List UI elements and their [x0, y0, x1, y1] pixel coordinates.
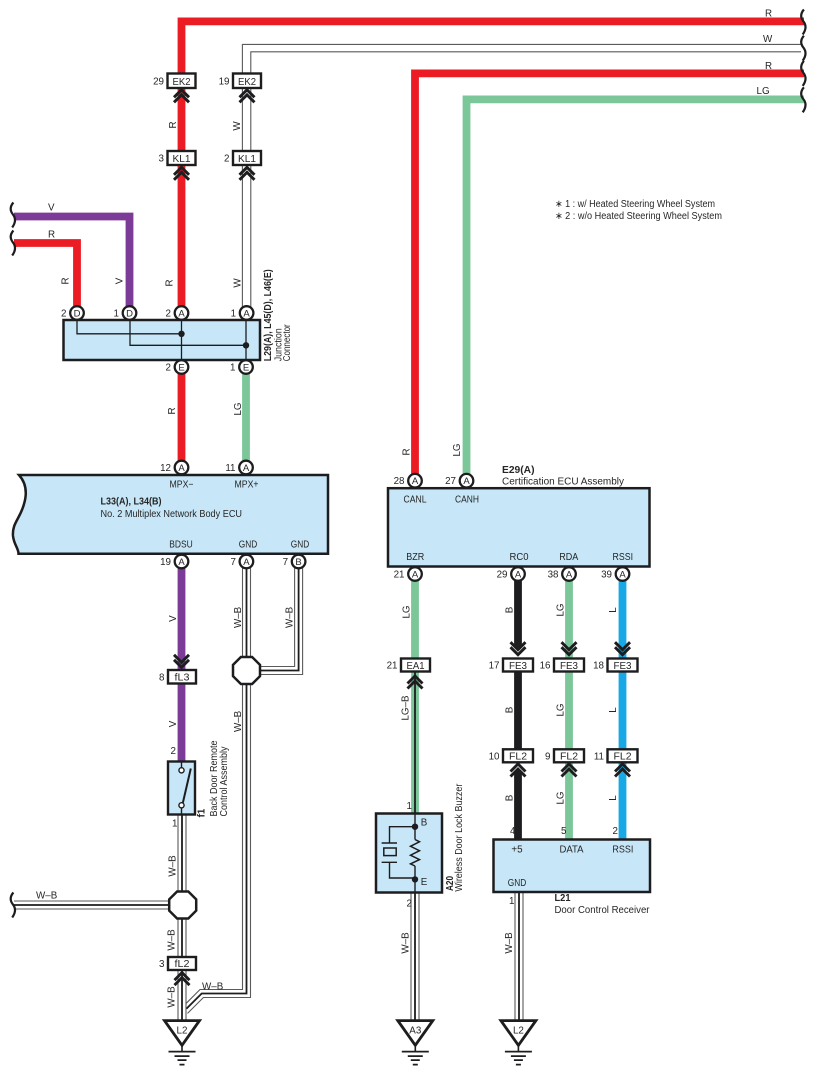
wire W-B octagon down, left, merging above ground L2	[186, 681, 250, 1013]
connector EA1 21	[387, 659, 430, 672]
pin 39A	[601, 567, 629, 581]
svg-text:fL3: fL3	[175, 672, 190, 684]
connector FE3 18	[593, 659, 637, 672]
wire B FE3 to FL2	[514, 658, 522, 762]
svg-text:R: R	[765, 8, 772, 19]
svg-text:GND: GND	[508, 878, 527, 889]
svg-text:CANH: CANH	[455, 494, 479, 505]
svg-text:A: A	[566, 569, 573, 580]
pin 7B	[283, 555, 306, 569]
pin 1D	[114, 306, 137, 320]
svg-text:W–B: W–B	[166, 929, 177, 951]
wire LG junction E1 to L33 pin 11	[242, 367, 250, 467]
svg-text:L: L	[608, 795, 619, 801]
svg-text:MPX−: MPX−	[170, 480, 194, 491]
svg-text:W–B: W–B	[166, 986, 177, 1008]
wire B FL2 chevron to L21 pin 4	[514, 769, 522, 845]
svg-text:10: 10	[489, 751, 500, 762]
svg-text:9: 9	[545, 751, 550, 762]
break squiggle LG	[801, 87, 805, 112]
svg-text:A: A	[178, 308, 185, 319]
svg-text:FE3: FE3	[614, 660, 632, 672]
pin 2A	[166, 306, 189, 320]
svg-text:Connector: Connector	[282, 324, 293, 362]
wire R top horizontal to EK2 29 and down to junction pin 2A	[182, 21, 805, 313]
svg-text:D: D	[126, 308, 133, 319]
wire V from left to junction pin 1D	[14, 217, 130, 314]
svg-text:FE3: FE3	[509, 660, 527, 672]
svg-text:V: V	[168, 720, 179, 727]
pin 1E	[230, 360, 253, 374]
svg-text:39: 39	[601, 569, 612, 580]
svg-text:V: V	[114, 277, 125, 284]
svg-text:W–B: W–B	[284, 606, 295, 628]
svg-text:BZR: BZR	[406, 552, 424, 563]
svg-text:EA1: EA1	[407, 660, 425, 672]
buzzer box A20 Wireless Door Lock Buzzer	[376, 814, 442, 893]
svg-text:18: 18	[593, 661, 604, 672]
svg-text:KL1: KL1	[173, 153, 191, 165]
svg-text:FL2: FL2	[614, 751, 632, 763]
svg-text:W–B: W–B	[504, 932, 515, 954]
svg-text:A: A	[178, 463, 185, 474]
svg-text:W–B: W–B	[233, 606, 244, 628]
svg-text:fL2: fL2	[175, 958, 190, 970]
wire W-B horizontal from left to octagon joint	[14, 901, 176, 909]
pin 27A	[445, 474, 473, 488]
wire B RC0 to FE3 chevron	[514, 574, 522, 651]
svg-text:B: B	[295, 557, 301, 568]
svg-text:B: B	[421, 817, 428, 828]
svg-text:R: R	[168, 121, 179, 128]
svg-text:W–B: W–B	[36, 891, 58, 902]
svg-text:LG: LG	[757, 86, 770, 97]
octagon joint right	[233, 657, 260, 684]
switch contacts	[181, 762, 183, 815]
pin 28A	[394, 474, 422, 488]
pin 19A	[160, 555, 188, 569]
ECU box L33 No.2 Multiplex Network Body ECU	[13, 475, 328, 554]
svg-text:1: 1	[231, 308, 236, 319]
svg-text:28: 28	[394, 476, 405, 487]
connector FL2 9	[545, 749, 584, 762]
svg-text:L: L	[608, 607, 619, 613]
connector EK2 29	[153, 74, 195, 89]
wire LG horizontal to CANH pin 27	[467, 99, 805, 480]
svg-text:R: R	[48, 229, 55, 240]
svg-text:BDSU: BDSU	[169, 540, 193, 551]
pin 2E	[166, 360, 189, 374]
svg-text:A: A	[243, 463, 250, 474]
svg-text:W: W	[232, 121, 243, 131]
svg-text:A3: A3	[409, 1026, 422, 1037]
wire LG BZR to EA1	[411, 574, 419, 665]
chevron down above FE3 18	[615, 642, 630, 655]
svg-text:CANL: CANL	[404, 494, 427, 505]
wire W-B 7A to octagon joint	[243, 562, 251, 661]
svg-text:B: B	[504, 606, 515, 613]
wire W top horizontal to EK2 19 and down to junction pin 1A	[242, 44, 801, 313]
svg-text:RDA: RDA	[559, 552, 578, 563]
junction node dot	[178, 331, 184, 337]
svg-text:2: 2	[613, 826, 618, 837]
svg-text:A: A	[243, 557, 250, 568]
svg-text:1: 1	[114, 308, 119, 319]
ECU box E29 Certification ECU Assembly	[388, 488, 650, 566]
svg-text:EK2: EK2	[238, 76, 256, 88]
svg-text:A: A	[515, 569, 522, 580]
svg-text:19: 19	[160, 557, 171, 568]
pin 38A	[548, 567, 576, 581]
svg-text:16: 16	[540, 661, 551, 672]
wire W-B f1 down to ground L2 left	[178, 815, 186, 1021]
svg-text:4: 4	[510, 826, 516, 837]
wire V 19A to f1 switch	[178, 562, 186, 764]
svg-text:21: 21	[387, 661, 398, 672]
connector FL2 10	[489, 749, 533, 762]
svg-text:f1: f1	[196, 808, 207, 817]
svg-text:L33(A), L34(B): L33(A), L34(B)	[101, 497, 162, 508]
svg-text:L2: L2	[513, 1026, 524, 1037]
svg-text:Door Control Receiver: Door Control Receiver	[555, 905, 651, 916]
svg-text:27: 27	[445, 476, 456, 487]
wire W-B L21 to ground L2	[515, 892, 523, 1021]
svg-text:R: R	[164, 279, 175, 286]
svg-text:W: W	[232, 278, 243, 288]
resistor zigzag	[411, 840, 420, 867]
pin 1A	[231, 306, 254, 320]
connector FE3 17	[489, 659, 533, 672]
connector fL3 8	[159, 670, 196, 684]
svg-text:Wireless Door Lock Buzzer: Wireless Door Lock Buzzer	[454, 783, 465, 892]
svg-text:W–B: W–B	[400, 932, 411, 954]
svg-text:1: 1	[172, 819, 177, 830]
svg-text:GND: GND	[239, 540, 258, 551]
svg-text:2: 2	[166, 308, 171, 319]
svg-text:DATA: DATA	[560, 845, 584, 856]
svg-text:L2: L2	[177, 1026, 188, 1037]
wire W-B A20 to ground A3	[411, 893, 419, 1021]
pin 2D	[61, 306, 84, 320]
connector FL2 11	[594, 749, 638, 762]
wire R from left to junction pin 2D	[14, 243, 77, 313]
svg-text:V: V	[48, 202, 55, 213]
receiver box L21 Door Control Receiver	[494, 840, 651, 893]
ground A3	[398, 1021, 433, 1065]
node B	[412, 824, 418, 830]
buzzer internal circuit	[382, 814, 415, 893]
svg-text:R: R	[401, 448, 412, 455]
connector FE3 16	[540, 659, 584, 672]
svg-text:12: 12	[160, 463, 171, 474]
svg-text:MPX+: MPX+	[235, 480, 259, 491]
svg-text:KL1: KL1	[238, 153, 256, 165]
svg-text:B: B	[504, 794, 515, 801]
svg-text:GND: GND	[291, 540, 310, 551]
svg-text:A: A	[178, 557, 185, 568]
svg-text:B: B	[504, 706, 515, 713]
ground L2 right	[501, 1021, 536, 1065]
chevron down above FE3 17	[511, 642, 526, 655]
svg-text:FL2: FL2	[560, 751, 578, 763]
svg-text:8: 8	[159, 672, 165, 683]
svg-text:1: 1	[407, 801, 412, 812]
svg-text:7: 7	[230, 557, 235, 568]
connector fL2 3	[159, 957, 196, 970]
connector KL1 2	[224, 151, 261, 165]
connector EK2 19	[219, 74, 261, 89]
switch box f1 Back Door Remote Control Assembly	[168, 762, 195, 815]
svg-text:E29(A): E29(A)	[502, 465, 535, 476]
svg-text:A: A	[619, 569, 626, 580]
svg-text:7: 7	[283, 557, 288, 568]
svg-text:E: E	[243, 362, 249, 373]
svg-text:RSSI: RSSI	[613, 552, 634, 563]
svg-text:3: 3	[159, 959, 165, 970]
ground L2 left	[165, 1021, 200, 1065]
junction internal wiring	[77, 320, 246, 360]
svg-text:2: 2	[407, 898, 412, 909]
pin 7A	[230, 555, 253, 569]
svg-text:∗ 1 : w/ Heated Steering Wheel: ∗ 1 : w/ Heated Steering Wheel System	[555, 199, 715, 210]
wire W-B 7B to octagon joint	[252, 562, 303, 675]
junction node dot	[243, 342, 249, 348]
svg-text:29: 29	[497, 569, 508, 580]
svg-text:V: V	[168, 615, 179, 622]
svg-text:E: E	[421, 877, 428, 888]
junction connector box L29	[64, 320, 261, 360]
svg-text:+5: +5	[511, 845, 523, 856]
chevron down above fL3	[174, 655, 189, 668]
svg-text:1: 1	[230, 362, 235, 373]
break squiggle R2	[801, 61, 805, 86]
svg-text:LG–B: LG–B	[400, 695, 411, 721]
svg-text:19: 19	[219, 76, 230, 87]
svg-text:5: 5	[561, 826, 567, 837]
svg-text:LG: LG	[555, 603, 566, 616]
svg-text:W: W	[763, 34, 773, 45]
svg-text:LG: LG	[233, 402, 244, 415]
break squiggle V	[11, 203, 15, 228]
svg-text:11: 11	[225, 463, 235, 474]
svg-text:2: 2	[166, 362, 171, 373]
svg-text:2: 2	[224, 154, 229, 165]
svg-text:Control Assembly: Control Assembly	[219, 746, 230, 816]
wire LG-B EA1 to A20 buzzer	[411, 665, 419, 816]
svg-text:L: L	[608, 707, 619, 713]
break squiggle W-B	[11, 893, 15, 918]
svg-text:LG: LG	[555, 791, 566, 804]
svg-text:R: R	[167, 407, 178, 414]
svg-text:A: A	[412, 476, 419, 487]
svg-text:2: 2	[171, 746, 176, 757]
pin 11A	[225, 461, 252, 475]
svg-text:LG: LG	[555, 703, 566, 716]
svg-text:∗ 2 : w/o Heated Steering Whee: ∗ 2 : w/o Heated Steering Wheel System	[555, 211, 722, 222]
wire L RSSI through FE3 and FL2 to L21 pin 2	[619, 574, 627, 845]
pin 12A	[160, 461, 188, 475]
wire LG RDA through FE3 and FL2 to L21 pin 5	[565, 574, 573, 845]
break squiggle R1	[801, 10, 805, 35]
svg-text:2: 2	[61, 308, 66, 319]
svg-text:1: 1	[509, 896, 514, 907]
pin 29A	[497, 567, 525, 581]
svg-text:A: A	[412, 569, 419, 580]
buzzer element square	[384, 848, 396, 856]
chevron down above FE3 16	[562, 642, 577, 655]
svg-text:3: 3	[159, 154, 165, 165]
svg-text:17: 17	[489, 661, 500, 672]
svg-text:R: R	[765, 61, 772, 72]
connector KL1 3	[159, 151, 196, 165]
svg-text:D: D	[74, 308, 81, 319]
svg-text:21: 21	[394, 569, 405, 580]
svg-text:L29(A), L45(D), L46(E): L29(A), L45(D), L46(E)	[263, 269, 274, 361]
svg-text:RC0: RC0	[510, 552, 530, 563]
svg-text:W–B: W–B	[167, 855, 178, 877]
break squiggle W	[801, 36, 805, 61]
svg-text:W–B: W–B	[202, 982, 224, 993]
svg-text:L21: L21	[555, 893, 572, 904]
svg-text:11: 11	[594, 751, 604, 762]
svg-text:LG: LG	[452, 443, 463, 456]
svg-text:E: E	[178, 362, 184, 373]
svg-text:RSSI: RSSI	[612, 845, 633, 856]
wire R junction E2 to L33 pin 12	[178, 367, 186, 467]
svg-text:A: A	[463, 476, 470, 487]
svg-text:EK2: EK2	[173, 76, 191, 88]
svg-text:W–B: W–B	[233, 710, 244, 732]
svg-text:FE3: FE3	[560, 660, 578, 672]
svg-text:LG: LG	[401, 605, 412, 618]
svg-text:No. 2 Multiplex Network Body E: No. 2 Multiplex Network Body ECU	[101, 509, 243, 520]
svg-text:A: A	[243, 308, 250, 319]
svg-text:FL2: FL2	[509, 751, 527, 763]
svg-text:38: 38	[548, 569, 559, 580]
break squiggle R	[11, 231, 15, 256]
octagon joint left	[169, 892, 196, 919]
pin 21A	[394, 567, 422, 581]
svg-text:Certification ECU Assembly: Certification ECU Assembly	[502, 476, 624, 487]
svg-text:29: 29	[153, 76, 164, 87]
node E	[412, 876, 418, 882]
wire R horizontal to CANL pin 28	[415, 73, 804, 480]
svg-text:R: R	[60, 277, 71, 284]
